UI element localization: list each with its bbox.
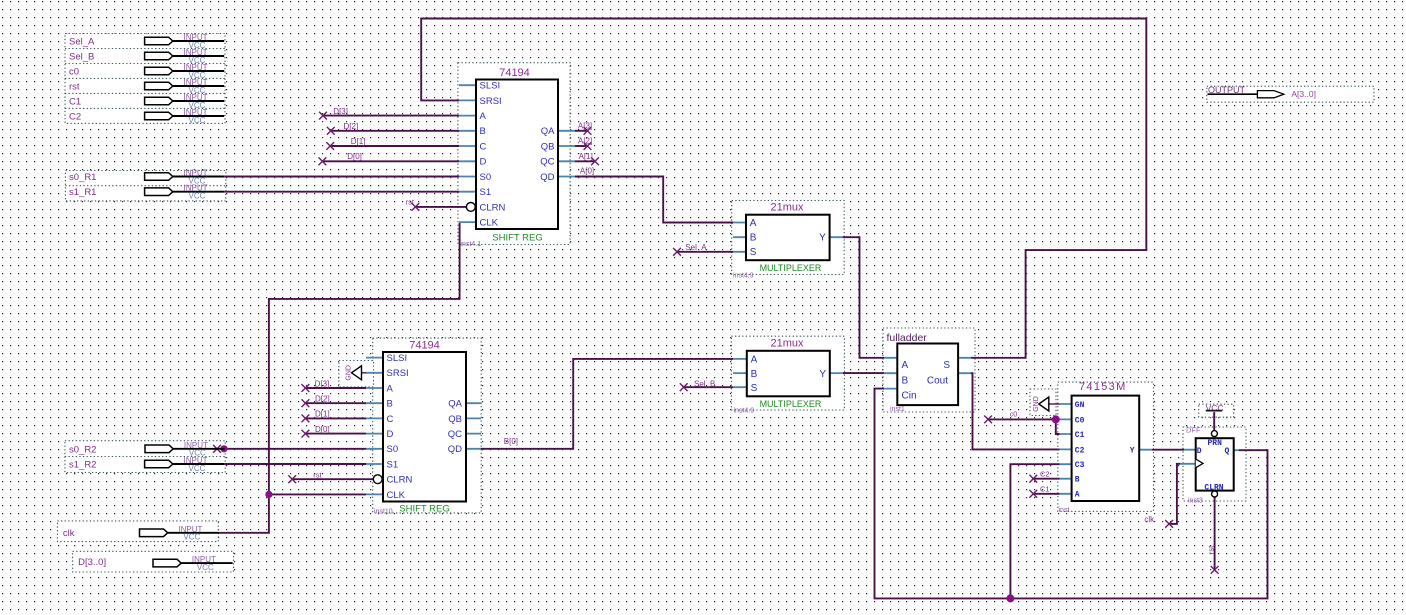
svg-text:inst10: inst10 <box>374 509 393 516</box>
wire s1_R2 to S1 of shift reg 2 <box>224 463 366 465</box>
input pin C1 <box>145 93 225 110</box>
component 21mux U3 body <box>746 215 830 261</box>
wire c0 to 74153M C0 and C1 <box>988 418 1060 420</box>
svg-text:clk: clk <box>63 528 75 539</box>
wire mux1 Y to fulladder A <box>843 237 884 358</box>
svg-text:s1_R1: s1_R1 <box>69 187 96 198</box>
svg-text:74194: 74194 <box>409 340 440 352</box>
svg-text:S: S <box>751 383 758 394</box>
X dangling D[3] bottom <box>302 384 310 392</box>
X dangling rst at DFF <box>1211 566 1219 574</box>
svg-text:D[0]: D[0] <box>315 425 330 434</box>
wire QA dangling A[3] <box>575 130 588 132</box>
svg-text:SHIFT REG: SHIFT REG <box>399 504 450 515</box>
junction clk branch <box>265 491 272 498</box>
svg-text:74194: 74194 <box>499 67 530 79</box>
selection box: DFF <box>1183 427 1246 501</box>
selection box: VCC symbol <box>1199 404 1234 417</box>
svg-text:QD: QD <box>448 444 462 455</box>
pin stubs DFF <box>1180 450 1239 464</box>
ground symbol at 74153M GN <box>1033 396 1060 412</box>
svg-text:D[2]: D[2] <box>315 395 330 404</box>
svg-text:inst3: inst3 <box>1188 498 1203 505</box>
svg-text:A: A <box>480 111 487 122</box>
input pin C2 <box>145 108 225 125</box>
X dangling D[0] bottom <box>302 430 310 438</box>
wire C2 label to 74153M B <box>1033 478 1059 480</box>
svg-text:inst1: inst1 <box>890 406 905 413</box>
input pin Sel_B <box>145 48 225 65</box>
svg-text:fulladder: fulladder <box>887 332 928 344</box>
pin stubs mux 2 <box>733 359 843 387</box>
X dangling A[2] <box>584 142 592 150</box>
pin stubs mux 1 <box>733 223 843 252</box>
svg-text:QC: QC <box>448 429 462 440</box>
wire D[3] to A of shift reg 2 <box>305 387 366 389</box>
svg-text:CLRN: CLRN <box>1204 484 1223 493</box>
component fulladder U5 body <box>897 344 958 406</box>
X dangling D[1] bottom <box>302 415 310 423</box>
node box: OUTPUT A[3..0] <box>1207 86 1374 102</box>
wire rst to CLRN of shift reg 2 <box>292 478 373 480</box>
wire 74153M Y to DFF D <box>1152 449 1184 451</box>
svg-text:clk: clk <box>1144 515 1155 524</box>
svg-text:D[1]: D[1] <box>315 410 330 419</box>
svg-text:D: D <box>1197 447 1202 456</box>
input pin rst <box>145 78 225 95</box>
input pin s1_R2 <box>145 456 225 473</box>
svg-text:B[0]: B[0] <box>504 437 518 446</box>
svg-text:MULTIPLEXER: MULTIPLEXER <box>760 399 822 409</box>
CLRN bubble shift reg 2 <box>373 475 382 484</box>
wire QB dangling A[2] <box>575 145 588 147</box>
svg-text:D[1]: D[1] <box>351 137 366 146</box>
svg-text:inst4.9: inst4.9 <box>734 407 755 414</box>
wire bottom rail junction up to 74153M C3 <box>1010 464 1059 598</box>
svg-text:inst: inst <box>1059 507 1070 514</box>
svg-text:D[3..0]: D[3..0] <box>78 557 106 568</box>
junction c0 at C0 <box>1052 415 1060 423</box>
wire B[0]: QD of shift reg 2 to mux2 A <box>481 359 733 449</box>
CLRN bubble DFF <box>1212 491 1218 497</box>
svg-text:C2: C2 <box>1075 446 1085 455</box>
wire s1_R1 to S1 <box>224 191 459 193</box>
svg-text:Y: Y <box>1130 447 1135 456</box>
svg-text:SHIFT REG: SHIFT REG <box>492 232 543 243</box>
svg-text:inst4.9: inst4.9 <box>733 273 754 280</box>
X dangling D[1] top <box>326 142 334 150</box>
svg-text:A: A <box>1075 491 1080 500</box>
svg-text:c0: c0 <box>1010 412 1018 419</box>
svg-text:S0: S0 <box>480 172 492 183</box>
node box: D[3..0] input <box>73 551 234 572</box>
X dangling D[0] top <box>319 157 327 165</box>
wire QC dangling A[1] <box>575 160 595 162</box>
selection box: gnd at 74153M <box>1030 389 1056 416</box>
svg-text:QB: QB <box>448 414 462 425</box>
pin stubs shift reg 2 right <box>466 403 481 449</box>
svg-text:DFF: DFF <box>1186 426 1201 435</box>
input pin D[3..0] <box>153 555 233 572</box>
wire D[0] to D of shift reg 1 <box>322 160 459 162</box>
component 74194 shift register U2 body <box>383 352 466 502</box>
svg-text:D[2]: D[2] <box>344 122 359 131</box>
selection box: shift register 1 <box>458 63 570 245</box>
svg-text:B: B <box>750 233 757 244</box>
X dangling c0 <box>984 416 992 424</box>
svg-text:B: B <box>902 376 909 387</box>
X dangling Sel_B <box>680 383 688 391</box>
wire s0_R2 to S0 of shift reg 2 <box>224 448 366 450</box>
X dangling clk at DFF <box>1165 520 1173 528</box>
svg-text:s1_R2: s1_R2 <box>69 460 96 471</box>
svg-text:C: C <box>480 141 487 152</box>
svg-text:GND: GND <box>1033 396 1040 412</box>
CLRN bubble shift reg 1 <box>466 203 475 212</box>
pin stubs fulladder <box>884 358 971 389</box>
component 74153M U6 body <box>1072 396 1140 501</box>
wire s0_R1 to S0 <box>224 176 459 178</box>
wire QD A[0] to mux1 A <box>575 177 733 223</box>
wire VCC to DFF PRN <box>1213 412 1215 431</box>
pin stubs shift reg 1 left <box>459 85 476 222</box>
selection box: fulladder <box>883 328 975 412</box>
pin stubs 74153M <box>1060 404 1152 494</box>
component 74194 shift register U1 body <box>476 80 558 230</box>
svg-text:C: C <box>387 414 394 425</box>
wire mux2 Y to fulladder B <box>843 372 884 374</box>
svg-text:Sel_A: Sel_A <box>69 37 95 48</box>
wire D[0] to D of shift reg 2 <box>305 433 366 435</box>
svg-text:rst: rst <box>406 198 415 207</box>
svg-text:C1: C1 <box>1040 485 1050 494</box>
svg-text:OUTPUT: OUTPUT <box>1208 85 1246 95</box>
svg-text:A[1]: A[1] <box>579 152 593 161</box>
DFF clock triangle <box>1196 459 1203 468</box>
X dangling Sel_A <box>673 248 681 256</box>
node group box: s0_R1 s1_R1 <box>65 171 225 201</box>
svg-text:rst: rst <box>1206 545 1215 554</box>
selection box: gnd at shift register 2 <box>339 361 374 387</box>
component DFF U7 body <box>1196 438 1234 490</box>
svg-text:B: B <box>387 399 393 410</box>
X dangling rst top <box>412 203 420 211</box>
svg-text:C0: C0 <box>1075 416 1085 425</box>
svg-text:B: B <box>751 369 758 380</box>
svg-text:S1: S1 <box>480 187 492 198</box>
svg-text:C2: C2 <box>69 112 81 123</box>
pin stubs shift reg 1 right <box>558 131 575 177</box>
svg-text:PRN: PRN <box>1207 439 1222 448</box>
svg-text:rst: rst <box>313 470 322 479</box>
X dangling A[3] <box>584 127 592 135</box>
svg-text:A[3]: A[3] <box>578 121 592 130</box>
svg-text:S1: S1 <box>387 459 399 470</box>
X dangling C2 <box>1029 475 1037 483</box>
selection box: mux 2 <box>731 336 844 410</box>
svg-text:Y: Y <box>819 369 826 380</box>
wire D[2] to B of shift reg 1 <box>331 130 459 132</box>
svg-text:C3: C3 <box>1075 461 1085 470</box>
input pin s1_R1 <box>145 184 225 201</box>
svg-text:D[0]: D[0] <box>347 152 362 161</box>
svg-text:Cout: Cout <box>927 376 948 387</box>
svg-text:S: S <box>750 247 757 258</box>
svg-text:MULTIPLEXER: MULTIPLEXER <box>760 263 822 273</box>
svg-text:SRSI: SRSI <box>387 368 409 379</box>
svg-text:S: S <box>943 360 950 371</box>
input pin s0_R1 <box>145 169 225 186</box>
wire net SRSI loop: fulladder S to shift reg 1 SRSI <box>421 19 1146 358</box>
svg-text:Sel_B: Sel_B <box>69 52 94 63</box>
svg-text:D: D <box>387 429 394 440</box>
input pin clk <box>140 525 220 542</box>
output pin A[3..0] <box>1208 85 1316 99</box>
svg-text:inst4.1: inst4.1 <box>461 241 482 248</box>
svg-text:QA: QA <box>448 399 462 410</box>
wire clk branch to CLK of shift reg 2 <box>269 493 366 495</box>
power symbol VCC at DFF PRN <box>1206 403 1224 413</box>
ground symbol at shift reg 2 SRSI <box>346 365 367 381</box>
svg-text:CLK: CLK <box>480 218 499 229</box>
input pin s0_R2 <box>145 441 225 458</box>
wire Sel_B to mux2 S <box>684 386 733 388</box>
X dangling D[2] top <box>327 127 335 135</box>
wire fulladder Cout to 74153M C2 <box>971 373 1060 449</box>
X dangling s0_R2 <box>213 445 221 453</box>
svg-text:D[3]: D[3] <box>315 379 330 388</box>
input pin c0 <box>145 63 225 80</box>
selection box: mux 1 <box>732 201 845 275</box>
pin stubs shift reg 2 left <box>366 358 383 495</box>
wire Sel_A to mux1 S <box>677 251 733 253</box>
svg-text:CLRN: CLRN <box>387 475 413 486</box>
wire D[2] to B of shift reg 2 <box>305 402 366 404</box>
X dangling D[2] bottom <box>302 399 310 407</box>
X dangling A[1] <box>591 157 599 165</box>
svg-text:GN: GN <box>1075 401 1085 410</box>
svg-text:D: D <box>480 157 487 168</box>
svg-text:CLRN: CLRN <box>480 202 506 213</box>
X dangling D[3] top <box>319 112 327 120</box>
junction bottom rail to C3 <box>1006 594 1014 602</box>
component 21mux U4 body <box>747 351 830 397</box>
svg-text:GND: GND <box>346 365 353 381</box>
svg-text:A: A <box>751 354 758 365</box>
svg-text:C1: C1 <box>1075 431 1085 440</box>
svg-text:s0_R2: s0_R2 <box>69 444 96 455</box>
wire clk to DFF clock <box>1169 464 1180 524</box>
svg-text:21mux: 21mux <box>770 202 804 214</box>
wire DFF CLRN to rst dangling <box>1214 497 1216 570</box>
svg-text:S0: S0 <box>387 444 399 455</box>
wire D[1] to C of shift reg 2 <box>305 417 366 419</box>
svg-text:C2: C2 <box>1040 470 1050 479</box>
svg-text:c0: c0 <box>69 67 79 78</box>
svg-text:C1: C1 <box>69 97 81 108</box>
svg-text:A[3..0]: A[3..0] <box>1291 89 1316 99</box>
svg-text:QB: QB <box>541 141 555 152</box>
svg-text:A[0]: A[0] <box>580 167 594 176</box>
wire D[1] to C of shift reg 1 <box>330 145 459 147</box>
wire C1 label to 74153M A <box>1033 493 1059 495</box>
node box: clk input <box>57 521 218 542</box>
node group box: top-left input pins <box>65 34 225 124</box>
svg-text:Cin: Cin <box>902 390 917 401</box>
svg-text:s0_R1: s0_R1 <box>69 172 96 183</box>
svg-text:Y: Y <box>819 233 826 244</box>
svg-text:74153M: 74153M <box>1079 381 1127 393</box>
svg-text:A: A <box>902 360 909 371</box>
PRN bubble DFF <box>1211 431 1217 437</box>
svg-text:A: A <box>750 218 757 229</box>
svg-text:QA: QA <box>541 126 555 137</box>
wire rst to CLRN of shift reg 1 <box>415 206 466 208</box>
svg-text:A: A <box>387 383 394 394</box>
node group box: s0_R2 s1_R2 <box>65 441 225 473</box>
input pin Sel_A <box>145 33 225 50</box>
svg-text:CLK: CLK <box>387 490 406 501</box>
svg-text:QD: QD <box>540 172 554 183</box>
svg-text:Sel_A: Sel_A <box>685 243 707 252</box>
svg-text:SLSI: SLSI <box>387 353 408 364</box>
svg-text:Q: Q <box>1224 447 1229 456</box>
svg-text:SRSI: SRSI <box>480 96 502 107</box>
svg-text:SLSI: SLSI <box>480 81 501 92</box>
svg-text:rst: rst <box>69 82 80 93</box>
svg-text:B: B <box>480 126 486 137</box>
svg-text:D[3]: D[3] <box>333 107 348 116</box>
svg-text:21mux: 21mux <box>770 338 804 350</box>
wire fulladder Cin down to bottom rail and DFF Q <box>875 389 1268 599</box>
X dangling C1 <box>1029 490 1037 498</box>
junction s0_R2 <box>220 445 227 452</box>
svg-text:A[2]: A[2] <box>578 137 592 146</box>
selection box: shift register 2 <box>373 338 482 513</box>
wire net clk trunk <box>219 223 460 533</box>
svg-text:B: B <box>1075 476 1080 485</box>
svg-text:Sel_B: Sel_B <box>694 380 715 389</box>
selection box: 74153M <box>1058 382 1154 511</box>
X dangling rst bottom <box>288 475 296 483</box>
wire D[3] to A of shift reg 1 <box>323 115 459 117</box>
svg-text:QC: QC <box>540 157 554 168</box>
